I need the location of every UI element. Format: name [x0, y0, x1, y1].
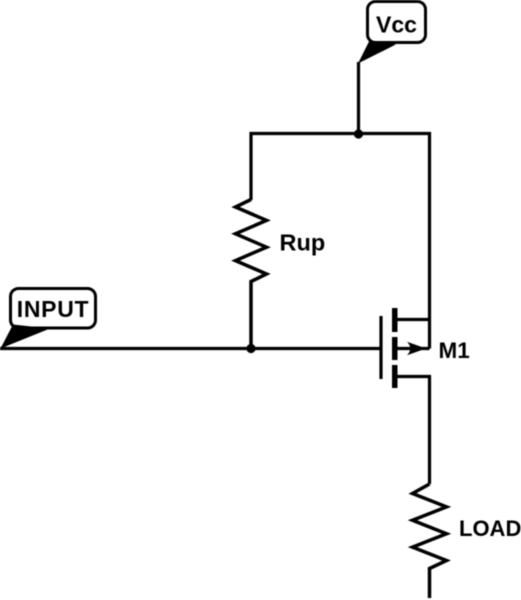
svg-text:Vcc: Vcc: [376, 12, 417, 38]
svg-text:Rup: Rup: [280, 230, 326, 256]
svg-text:INPUT: INPUT: [17, 296, 90, 322]
svg-text:LOAD: LOAD: [459, 516, 521, 541]
svg-text:M1: M1: [439, 338, 470, 363]
